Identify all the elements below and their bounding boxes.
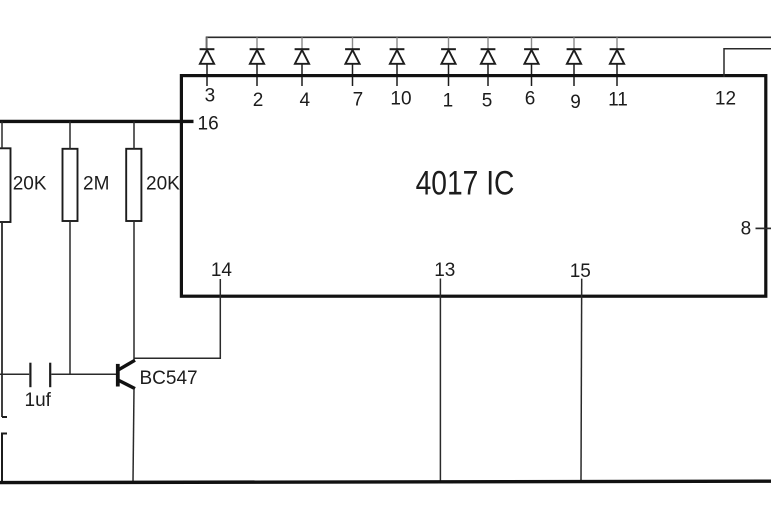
svg-text:20K: 20K xyxy=(146,174,180,195)
wire: capacitor to transistor base xyxy=(51,373,116,375)
svg-text:11: 11 xyxy=(608,90,628,111)
LED D5 (pin 10) xyxy=(390,37,405,86)
svg-text:1uf: 1uf xyxy=(25,390,52,411)
svg-text:16: 16 xyxy=(198,114,219,135)
svg-text:5: 5 xyxy=(482,91,493,112)
svg-text:4: 4 xyxy=(300,90,311,111)
wire: R2 top lead xyxy=(69,121,71,148)
svg-text:8: 8 xyxy=(741,219,752,240)
wire: R1 top lead xyxy=(1,121,3,148)
wire: pin 12 to right edge xyxy=(724,49,771,77)
LED D2 (pin 2) xyxy=(250,37,265,86)
IC U1 4017 body xyxy=(181,76,765,297)
LED D8 (pin 6) xyxy=(524,37,539,86)
resistor R3 20K body xyxy=(126,149,141,221)
svg-text:13: 13 xyxy=(434,260,455,281)
svg-text:14: 14 xyxy=(211,260,233,281)
connector stub upper (left edge) xyxy=(2,416,7,418)
svg-text:BC547: BC547 xyxy=(140,368,198,389)
wire: R2 bottom lead to base node xyxy=(69,221,71,374)
svg-text:3: 3 xyxy=(205,85,216,106)
LED D7 (pin 5) xyxy=(481,37,496,86)
transistor Q1 BC547 xyxy=(118,360,135,388)
wire: VCC rail to pin 16 xyxy=(0,120,194,123)
svg-text:20K: 20K xyxy=(13,174,47,195)
svg-text:10: 10 xyxy=(390,89,411,110)
svg-text:15: 15 xyxy=(570,261,591,282)
LED D3 (pin 4) xyxy=(295,37,310,86)
wire: LED anode bus (top rail) xyxy=(207,37,771,48)
wire: Q1 emitter to ground rail xyxy=(133,389,134,482)
wire: pin 13 to ground rail xyxy=(439,279,441,483)
LED D9 (pin 9) xyxy=(567,37,582,86)
pin 8 stub xyxy=(756,227,771,229)
LED D10 (pin 11) xyxy=(610,37,625,86)
svg-text:7: 7 xyxy=(353,90,364,111)
wire: R3 bottom lead to collector node xyxy=(133,221,135,361)
resistor R2 2M body xyxy=(63,149,78,221)
LED D1 (pin 3) xyxy=(200,37,215,86)
svg-text:6: 6 xyxy=(525,89,536,110)
svg-text:2M: 2M xyxy=(83,174,109,195)
wire: pin 15 to ground rail xyxy=(580,279,583,482)
capacitor C1 1uf plates xyxy=(30,363,50,388)
LED D6 (pin 1) xyxy=(441,37,456,86)
wire: R1 bottom lead down left edge xyxy=(1,222,3,417)
wire: pin 14 down and left to collector node xyxy=(134,279,220,358)
wire: R3 top lead xyxy=(133,121,135,148)
wire: left node to capacitor xyxy=(0,373,29,375)
svg-text:12: 12 xyxy=(715,89,736,110)
svg-text:1: 1 xyxy=(443,91,454,112)
svg-text:2: 2 xyxy=(253,90,264,111)
connector stub lower (left edge) xyxy=(2,434,7,482)
svg-text:4017 IC: 4017 IC xyxy=(416,164,515,202)
ground rail (bottom) xyxy=(0,481,771,482)
resistor R1 20K body xyxy=(0,148,11,222)
LED D4 (pin 7) xyxy=(345,37,360,86)
svg-text:9: 9 xyxy=(570,92,581,113)
